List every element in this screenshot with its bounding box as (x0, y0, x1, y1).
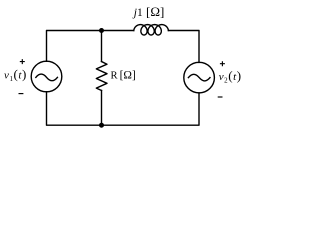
svg-text:[Ω]: [Ω] (146, 4, 164, 19)
svg-text:[Ω]: [Ω] (120, 69, 136, 81)
svg-text:v1(t): v1(t) (4, 67, 27, 84)
svg-text:j1: j1 (132, 7, 143, 19)
svg-text:R: R (111, 70, 119, 81)
svg-text:v2(t): v2(t) (219, 68, 242, 85)
